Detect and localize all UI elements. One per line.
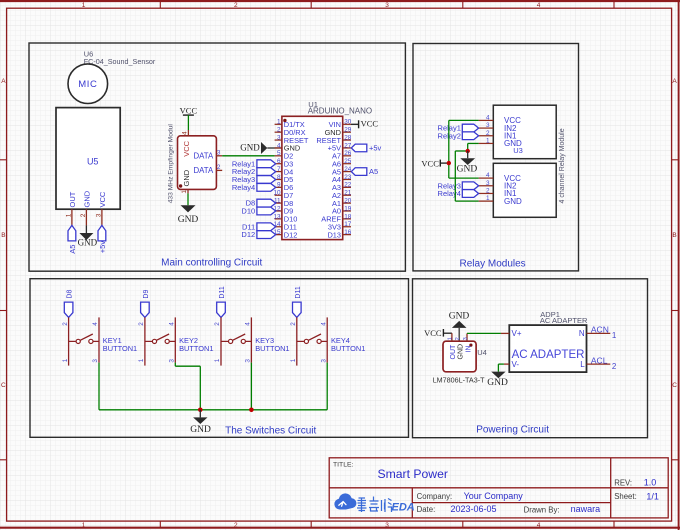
net flag D8 at U1 D8 — [246, 199, 276, 208]
sound sensor U5 body — [56, 108, 120, 210]
svg-text:MIC: MIC — [78, 79, 97, 90]
AC adapter ADP1 body — [509, 325, 586, 372]
ground symbol switches section — [190, 410, 211, 435]
svg-text:22: 22 — [344, 182, 352, 189]
svg-text:4: 4 — [537, 2, 541, 9]
svg-text:VCC: VCC — [180, 106, 198, 116]
svg-text:17: 17 — [344, 221, 352, 228]
svg-text:4: 4 — [277, 142, 281, 149]
U4 pin 1 OUT — [447, 333, 456, 359]
U1 left pin 13 D10 — [273, 213, 297, 223]
svg-text:V-: V- — [512, 360, 520, 369]
U1 left pin 4 GND — [275, 142, 301, 152]
svg-text:VCC: VCC — [98, 191, 107, 207]
regulator U4 body — [443, 341, 487, 372]
svg-text:A5: A5 — [369, 167, 378, 176]
svg-text:3: 3 — [92, 359, 99, 363]
svg-text:2: 2 — [486, 130, 490, 137]
net flag Relay2 at U1 D4 — [232, 167, 276, 176]
net flag Relay4 at U1 D6 — [232, 183, 276, 192]
svg-text:BUTTON1: BUTTON1 — [255, 344, 289, 353]
U1 right pin 16 D13 — [327, 229, 351, 239]
svg-text:VCC: VCC — [421, 158, 439, 168]
svg-text:23: 23 — [344, 174, 352, 181]
VCC power flag at U4 OUT — [424, 328, 452, 338]
ADP1 pin V- — [504, 360, 519, 369]
U1 left pin 12 D9 — [273, 205, 293, 215]
svg-text:AC ADAPTER: AC ADAPTER — [540, 316, 588, 325]
ground symbol (pointing up) above U4 — [449, 311, 470, 341]
title block table — [329, 458, 668, 518]
ground flag at Arduino GND pin 4 — [240, 142, 282, 154]
svg-text:3: 3 — [385, 522, 389, 529]
svg-text:2: 2 — [486, 187, 490, 194]
svg-text:D8: D8 — [67, 290, 74, 299]
switch KEY1 BUTTON1 — [62, 317, 137, 365]
svg-text:3: 3 — [95, 213, 102, 217]
svg-text:ACL: ACL — [591, 355, 608, 365]
U1 right pin 25 A6 — [332, 158, 352, 168]
svg-text:2: 2 — [214, 322, 221, 326]
svg-text:Drawn By:: Drawn By: — [524, 505, 560, 514]
wire KEY3 to ground bus — [250, 363, 252, 410]
svg-text:3: 3 — [486, 180, 490, 187]
svg-text:1: 1 — [486, 195, 490, 202]
svg-text:16: 16 — [344, 229, 352, 236]
svg-text:GND: GND — [78, 238, 98, 248]
wire ground bus — [99, 409, 327, 411]
svg-text:+5v: +5v — [369, 144, 382, 153]
switch KEY3 BUTTON1 — [214, 317, 289, 365]
svg-text:B: B — [1, 232, 5, 239]
svg-text:C: C — [672, 382, 677, 389]
svg-text:Sheet:: Sheet: — [614, 492, 637, 501]
U1 left pin 6 D3 — [275, 158, 294, 168]
svg-text:2: 2 — [80, 213, 87, 217]
svg-text:AC ADAPTER: AC ADAPTER — [512, 349, 585, 361]
op-amp/mcu U1 ARDUINO_NANO labels — [308, 100, 372, 116]
svg-text:VCC: VCC — [424, 328, 442, 338]
svg-text:A5: A5 — [68, 245, 77, 254]
svg-text:U4: U4 — [477, 348, 487, 357]
svg-text:4: 4 — [486, 114, 490, 121]
title block REV field — [614, 478, 656, 488]
svg-text:1: 1 — [290, 358, 297, 362]
U4 pin 3 IN — [463, 333, 472, 352]
433MHz pin 1 GND (bottom) + pin1 dot — [179, 169, 191, 193]
svg-text:A: A — [1, 78, 6, 85]
svg-text:D11: D11 — [219, 286, 226, 298]
svg-text:2: 2 — [234, 2, 238, 9]
U1 right pin 28 RESET — [316, 134, 351, 144]
svg-text:Relay Modules: Relay Modules — [460, 258, 526, 269]
svg-text:nawara: nawara — [571, 504, 601, 514]
svg-text:OUT: OUT — [68, 191, 77, 207]
svg-text:6: 6 — [277, 158, 281, 165]
svg-text:IN: IN — [465, 345, 472, 352]
svg-text:4: 4 — [169, 322, 176, 326]
U1 left pin 5 D2 — [275, 150, 294, 160]
U4 pin 2 GND — [455, 337, 464, 359]
wire VCC net relay modules — [449, 120, 479, 178]
svg-text:1: 1 — [486, 137, 490, 144]
U1 right pin 19 A0 — [332, 205, 352, 215]
svg-text:D9: D9 — [143, 290, 150, 299]
microphone U6 FC-04_Sound_Sensor label — [84, 50, 156, 66]
VCC power flag above 433MHz module — [180, 106, 198, 130]
switch KEY2 BUTTON1 — [138, 317, 213, 365]
svg-text:8: 8 — [277, 174, 281, 181]
ADP1 pin L with net port ACL — [580, 355, 617, 371]
svg-text:20: 20 — [344, 198, 352, 205]
wire KEY2 to ground bus — [175, 363, 200, 410]
433MHz pin 2 DATA — [194, 164, 223, 175]
svg-text:D10: D10 — [241, 207, 255, 216]
433MHz pin 3 DATA — [194, 150, 223, 161]
EDA logo — [334, 493, 414, 513]
svg-text:GND: GND — [449, 311, 470, 321]
wire KEY4 to ground bus — [326, 363, 328, 410]
section box: Main controlling Circuit — [29, 43, 405, 271]
wire U4 IN to ADP1 V+ — [467, 332, 501, 334]
net flag D11 at U1 D11 — [242, 222, 276, 231]
net flag D11 above KEY4 — [293, 286, 302, 317]
svg-text:3: 3 — [385, 2, 389, 9]
U1 left pin 2 D0/RX — [275, 127, 306, 137]
U3 top pin 3 IN2 — [479, 122, 517, 133]
svg-text:VCC: VCC — [182, 140, 191, 156]
title block Sheet field — [614, 491, 659, 501]
svg-text:2: 2 — [234, 522, 238, 529]
U1 left pin 11 D8 — [274, 198, 293, 208]
net flag D9 above KEY2 — [141, 290, 150, 318]
svg-text:Date:: Date: — [417, 505, 436, 514]
junction VCC net — [447, 161, 451, 165]
net flag D11 above KEY3 — [217, 286, 226, 317]
svg-text:GND: GND — [457, 164, 478, 174]
svg-text:A: A — [672, 78, 677, 85]
svg-text:7: 7 — [277, 166, 281, 173]
svg-text:21: 21 — [344, 190, 352, 197]
net flag D8 above KEY1 — [64, 290, 73, 318]
svg-text:D13: D13 — [327, 230, 341, 239]
svg-text:DATA: DATA — [194, 151, 214, 160]
svg-text:1: 1 — [612, 331, 617, 340]
VCC power flag relay section — [421, 158, 448, 168]
mcu U1 ARDUINO_NANO body — [282, 116, 343, 239]
svg-text:18: 18 — [344, 213, 352, 220]
svg-text:27: 27 — [344, 142, 352, 149]
net flag Relay1 at U3 IN2 — [438, 124, 479, 133]
svg-text:2: 2 — [62, 322, 69, 326]
junction GND net — [466, 149, 470, 153]
svg-text:Relay4: Relay4 — [232, 183, 255, 192]
433MHz module body — [168, 124, 217, 204]
svg-text:2: 2 — [277, 127, 281, 134]
svg-text:4: 4 — [486, 172, 490, 179]
ground symbol at ADP1 V- — [491, 372, 505, 379]
svg-text:2: 2 — [138, 322, 145, 326]
U1 left pin 10 D7 — [273, 190, 293, 200]
section box: Powering Circuit — [413, 279, 648, 438]
svg-text:1: 1 — [447, 337, 453, 340]
svg-text:29: 29 — [344, 127, 352, 134]
U1 left pin 14 D11 — [273, 221, 296, 231]
svg-text:C: C — [1, 382, 6, 389]
svg-text:1: 1 — [181, 190, 188, 194]
U1 left pin 1 D1/TX — [275, 119, 305, 129]
svg-text:1: 1 — [82, 2, 86, 9]
ADP1 pin N with net port ACN — [579, 325, 617, 340]
net flag A5 (U5 pin 1) — [68, 225, 77, 253]
net flag +5v (U5 pin 3) — [98, 225, 107, 253]
svg-text:3: 3 — [277, 134, 281, 141]
svg-text:GND: GND — [458, 344, 465, 360]
svg-text:1: 1 — [65, 213, 72, 217]
svg-text:1: 1 — [214, 358, 221, 362]
svg-text:GND: GND — [504, 139, 522, 148]
ground at U5 pin 2 — [78, 225, 98, 247]
svg-text:ARDUINO_NANO: ARDUINO_NANO — [308, 107, 372, 116]
svg-text:+5v: +5v — [98, 241, 107, 254]
svg-text:BUTTON1: BUTTON1 — [179, 344, 213, 353]
svg-text:10: 10 — [273, 190, 281, 197]
svg-text:Main controlling Circuit: Main controlling Circuit — [161, 257, 262, 268]
svg-text:3: 3 — [245, 359, 252, 363]
U1 left pin 9 D6 — [275, 182, 294, 192]
svg-text:4: 4 — [245, 322, 252, 326]
svg-text:GND: GND — [240, 142, 260, 152]
wire 433MHz DATA to Arduino D2 — [222, 155, 274, 157]
svg-text:REV:: REV: — [614, 478, 632, 487]
net flag Relay3 at U1 D5 — [232, 175, 276, 184]
svg-text:V+: V+ — [512, 329, 522, 338]
wire ADP1 V- to ground — [498, 364, 504, 372]
net flag Relay2 at U3 IN1 — [438, 131, 479, 140]
U1 right pin 30 VIN — [329, 119, 352, 129]
svg-text:4: 4 — [537, 522, 541, 529]
wire GND net relay modules — [455, 143, 478, 201]
U3 bottom pin 4 VCC — [479, 172, 522, 183]
ADP1 pin V+ — [501, 329, 522, 338]
svg-text:2: 2 — [290, 322, 297, 326]
U3 top pin 4 VCC — [479, 114, 522, 125]
svg-text:EDA: EDA — [392, 501, 415, 513]
svg-text:3: 3 — [320, 359, 327, 363]
svg-text:1: 1 — [82, 522, 86, 529]
junction ground bus at KEY3 — [249, 408, 254, 413]
svg-text:2: 2 — [455, 337, 461, 340]
svg-text:GND: GND — [182, 169, 191, 186]
switch KEY4 BUTTON1 — [290, 317, 365, 365]
net flag D10 at U1 D9 — [241, 207, 275, 216]
svg-text:4: 4 — [320, 322, 327, 326]
svg-text:2: 2 — [612, 362, 617, 371]
U5 pin 2 GND — [80, 190, 92, 225]
svg-text:25: 25 — [344, 158, 352, 165]
svg-text:B: B — [672, 232, 676, 239]
U3 top pin 1 GND — [479, 137, 522, 148]
U1 left pin 8 D5 — [275, 174, 294, 184]
AC adapter ADP1 labels — [540, 310, 588, 325]
svg-text:OUT: OUT — [450, 344, 457, 360]
U1 right pin 20 A1 — [332, 198, 352, 208]
svg-text:The Switches Circuit: The Switches Circuit — [225, 426, 316, 437]
U1 right pin 26 A7 — [332, 150, 352, 160]
net flag A5 at U1 A5 — [351, 167, 378, 176]
U1 right pin 21 A2 — [332, 190, 352, 200]
svg-text:U5: U5 — [87, 156, 99, 166]
svg-text:5: 5 — [277, 150, 281, 157]
svg-text:GND: GND — [504, 197, 522, 206]
U3 top pin 2 IN1 — [479, 130, 517, 141]
svg-text:2: 2 — [217, 164, 221, 171]
U1 left pin 3 RESET — [275, 134, 309, 144]
svg-text:D12: D12 — [284, 230, 298, 239]
svg-text:VCC: VCC — [361, 119, 379, 129]
svg-text:N: N — [579, 329, 585, 338]
svg-text:1: 1 — [277, 119, 281, 126]
svg-text:Smart Power: Smart Power — [378, 467, 448, 481]
title block TITLE field — [333, 461, 448, 481]
U1 right pin 29 GND — [325, 127, 352, 137]
svg-text:Your Company: Your Company — [464, 491, 524, 501]
wire KEY1 to ground bus — [98, 363, 100, 410]
svg-text:2023-06-05: 2023-06-05 — [451, 504, 497, 514]
svg-text:Powering Circuit: Powering Circuit — [476, 424, 549, 435]
svg-text:19: 19 — [344, 205, 352, 212]
svg-text:1/1: 1/1 — [646, 491, 659, 501]
svg-text:3: 3 — [463, 337, 469, 340]
svg-text:Company:: Company: — [417, 492, 453, 501]
svg-text:13: 13 — [273, 213, 281, 220]
svg-text:3: 3 — [217, 150, 221, 157]
svg-text:1: 1 — [138, 358, 145, 362]
U3 bottom pin 2 IN1 — [479, 187, 517, 198]
svg-text:GND: GND — [178, 215, 199, 225]
net flag D12 at U1 D12 — [241, 230, 275, 239]
microphone MIC circle U6 — [68, 64, 108, 104]
svg-text:TITLE:: TITLE: — [333, 461, 354, 468]
U1 right pin 22 A3 — [332, 182, 352, 192]
svg-text:4 channel Relay Module: 4 channel Relay Module — [559, 128, 566, 203]
svg-text:4: 4 — [92, 322, 99, 326]
svg-text:1.0: 1.0 — [644, 478, 657, 488]
title block Company field — [417, 491, 524, 501]
svg-text:D12: D12 — [241, 230, 255, 239]
section box: The Switches Circuit — [30, 279, 409, 438]
U1 right pin 23 A4 — [332, 174, 352, 184]
433MHz pin 4 VCC (top) — [182, 130, 192, 157]
U1 right pin 27 +5V — [328, 142, 352, 152]
svg-text:3: 3 — [169, 359, 176, 363]
svg-text:1: 1 — [62, 358, 69, 362]
svg-text:ACN: ACN — [591, 325, 609, 335]
svg-text:24: 24 — [344, 166, 352, 173]
svg-text:GND: GND — [83, 190, 92, 207]
relay module U3 bottom body — [493, 163, 556, 217]
svg-text:30: 30 — [344, 119, 352, 126]
U5 pin 3 VCC — [95, 191, 107, 225]
svg-text:3: 3 — [486, 122, 490, 129]
svg-text:BUTTON1: BUTTON1 — [331, 344, 365, 353]
ground symbol relay section — [457, 151, 478, 174]
U1 right pin 17 3V3 — [328, 221, 352, 231]
U5 pin 1 OUT — [65, 191, 77, 225]
svg-text:LM7806L-TA3-T: LM7806L-TA3-T — [433, 375, 485, 384]
svg-text:DATA: DATA — [194, 166, 214, 175]
junction ground bus at GND stem — [198, 408, 203, 413]
net flag +5v at U1 +5V — [351, 144, 381, 153]
title block Date field — [417, 504, 497, 514]
U1 right pin 18 AREF — [321, 213, 351, 223]
svg-text:28: 28 — [344, 134, 352, 141]
U1 right pin 24 A5 — [332, 166, 352, 176]
ground below 433MHz module — [178, 193, 199, 225]
section box: Relay Modules — [413, 44, 579, 271]
net flag Relay1 at U1 D3 — [232, 159, 276, 168]
U3 bottom pin 1 GND — [479, 195, 522, 206]
svg-text:4: 4 — [182, 131, 189, 135]
svg-text:D11: D11 — [295, 286, 302, 298]
svg-text:BUTTON1: BUTTON1 — [103, 344, 137, 353]
VCC power flag at U1 VIN — [351, 119, 378, 129]
svg-text:433 MHz Empfinger Modul: 433 MHz Empfinger Modul — [168, 124, 175, 204]
svg-text:9: 9 — [277, 182, 281, 189]
svg-text:Relay4: Relay4 — [438, 189, 461, 198]
svg-text:GND: GND — [487, 378, 508, 388]
svg-text:GND: GND — [190, 425, 211, 435]
net flag Relay3 at U3 bottom IN2 — [438, 181, 479, 190]
net flag Relay4 at U3 bottom IN1 — [438, 189, 479, 198]
U1 left pin 7 D4 — [275, 166, 294, 176]
title block Drawn By field — [524, 504, 601, 514]
U3 bottom pin 3 IN2 — [479, 180, 517, 191]
relay module U3 top body — [493, 105, 556, 159]
U1 left pin 15 D12 — [273, 229, 297, 239]
svg-text:26: 26 — [344, 150, 352, 157]
svg-text:L: L — [580, 360, 585, 369]
